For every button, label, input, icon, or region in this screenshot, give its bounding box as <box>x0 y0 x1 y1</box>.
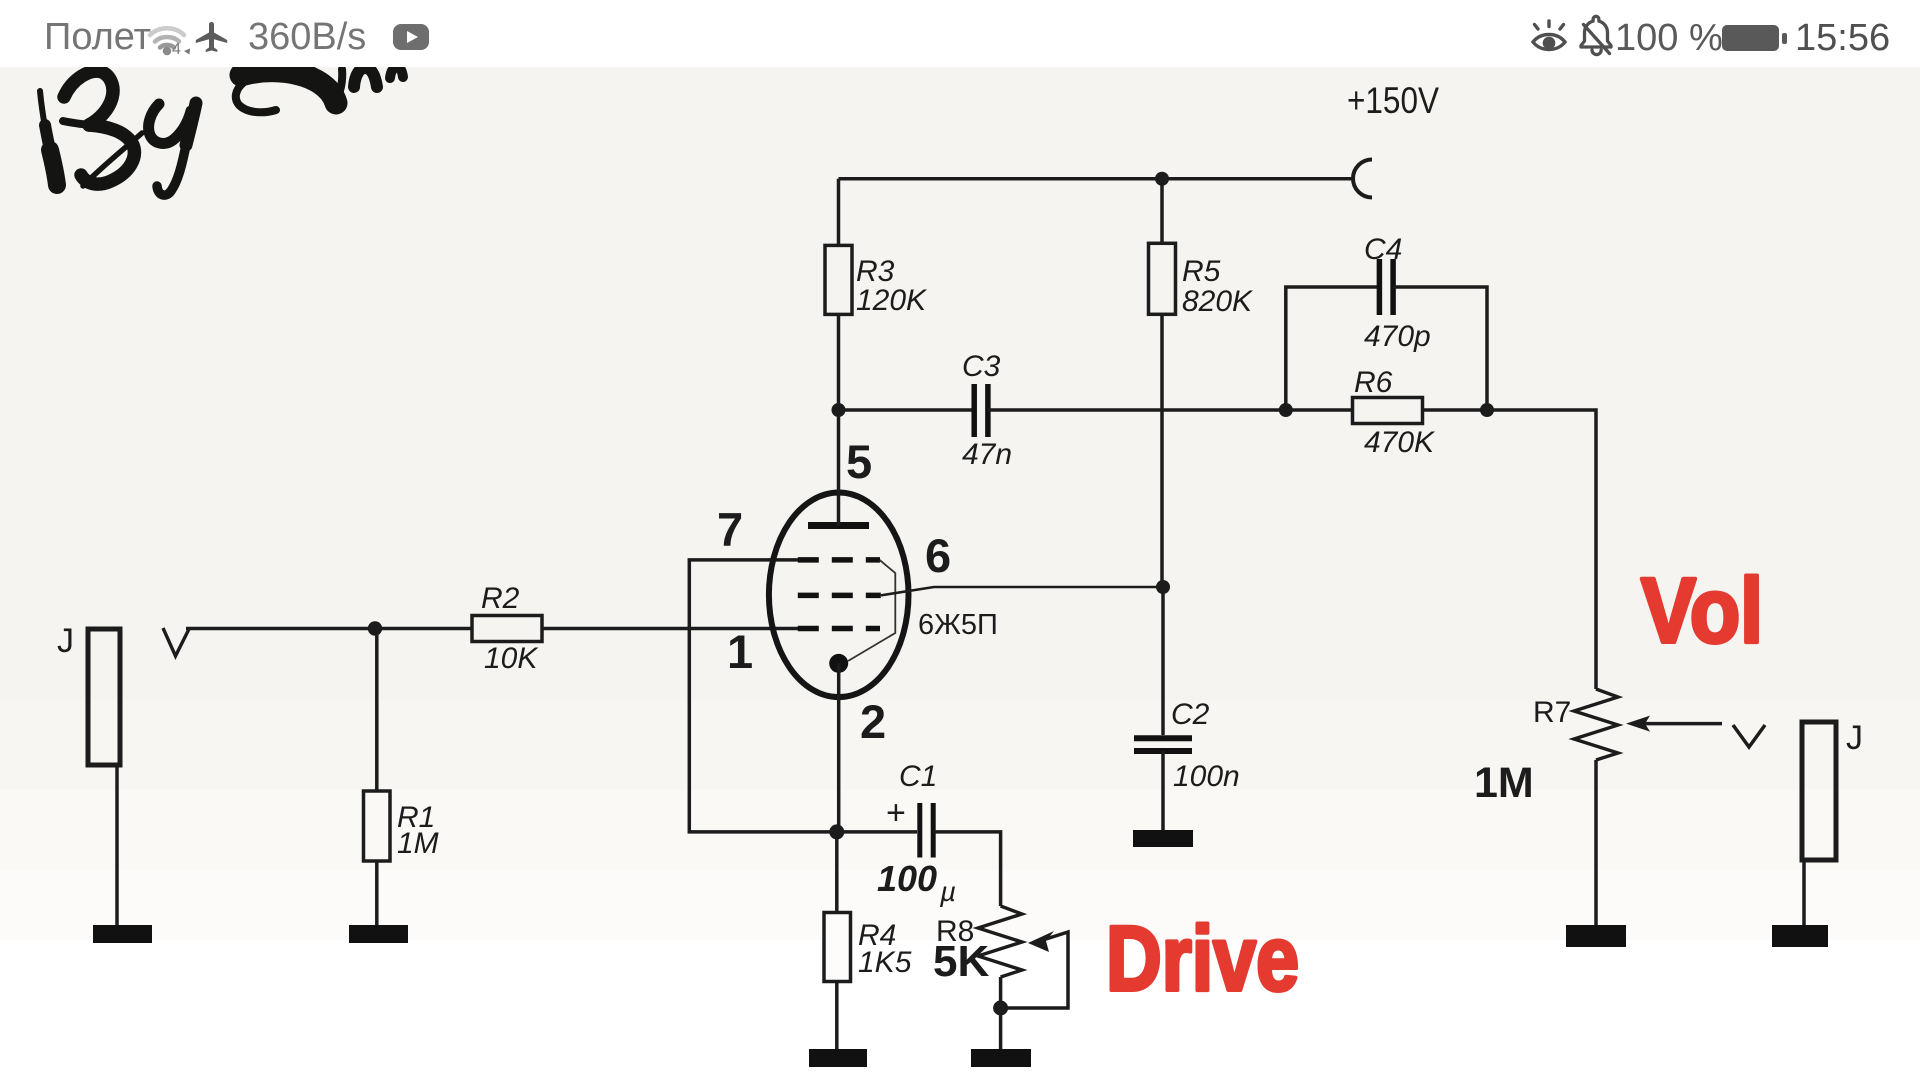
wire left node to R6 <box>1286 408 1353 412</box>
input jack J <box>88 629 120 765</box>
wire top supply rail <box>839 177 1355 181</box>
R8 wiper arrow <box>1028 931 1054 952</box>
wire rail down to R3 <box>837 179 841 246</box>
svg-text:100n: 100n <box>1173 760 1240 793</box>
wire plate node to C3 <box>839 408 972 412</box>
youtube icon <box>393 24 429 50</box>
wire pin7 external: left then down to cathode node <box>689 560 837 832</box>
wire R6 to right node <box>1423 408 1488 412</box>
svg-text:C2: C2 <box>1171 698 1210 731</box>
wire right node to R7 column <box>1487 410 1596 689</box>
ground (R1) <box>349 925 408 943</box>
svg-text:C1: C1 <box>899 760 937 793</box>
svg-text:Drive: Drive <box>1106 908 1299 1010</box>
ground (input jack) <box>93 925 152 943</box>
ground (R4) <box>809 1049 867 1067</box>
tube cathode dot (pin 2) <box>829 654 848 673</box>
wire C1 to R8 column <box>933 832 1001 906</box>
node plate/C3 junction <box>832 403 846 417</box>
svg-text:R7: R7 <box>1533 696 1571 729</box>
wire C2 to ground <box>1161 751 1165 835</box>
swoosh right curl up <box>335 69 342 102</box>
svg-text:1K5: 1K5 <box>858 946 912 979</box>
wire R3 down to plate node <box>837 314 841 410</box>
capacitor C1 electrolytic plates <box>917 803 922 858</box>
tube grid g1 dashed row (pin 1) <box>798 626 880 632</box>
+150V connector arc <box>1353 160 1372 198</box>
potentiometer R7 zigzag <box>1574 689 1618 760</box>
svg-text:R6: R6 <box>1354 366 1393 399</box>
svg-text:7: 7 <box>717 503 743 556</box>
node rail/R5 junction <box>1155 172 1169 186</box>
wire junction down to R1 <box>375 629 379 792</box>
svg-text:820K: 820K <box>1182 285 1254 318</box>
svg-text:470p: 470p <box>1364 320 1431 353</box>
tube internal g3-cathode thin link <box>848 560 895 661</box>
svg-text:6Ж5П: 6Ж5П <box>918 609 998 641</box>
wire input to R2 <box>186 627 474 631</box>
svg-text:C4: C4 <box>1364 233 1402 266</box>
svg-text:47n: 47n <box>962 438 1012 471</box>
svg-text:R5: R5 <box>1182 255 1221 288</box>
wire C4 branch right leg <box>1393 287 1487 410</box>
wire R8 bottom to ground <box>999 977 1003 1054</box>
svg-text:5K: 5K <box>933 937 989 986</box>
letter B exit upstroke crossing <box>83 133 142 186</box>
wire R4 to ground <box>835 982 839 1055</box>
svg-text:5: 5 <box>846 435 872 488</box>
R7 wiper arrow <box>1626 716 1650 732</box>
letter B lobes <box>64 71 113 125</box>
wire R1 to ground <box>375 861 379 930</box>
tube grid g2 dashed row (pin 6) <box>798 593 881 599</box>
resistor R6 <box>1353 398 1423 424</box>
resistor R1 <box>364 791 391 861</box>
node R8 bottom/wiper <box>993 1001 1008 1016</box>
input V symbol <box>163 628 189 656</box>
wifi icon <box>150 28 184 47</box>
node C4/R6 right <box>1480 403 1494 417</box>
svg-text:J: J <box>1846 719 1863 757</box>
STATUSBAR <box>0 0 1920 67</box>
signature second word main swoosh <box>241 71 336 103</box>
node cathode junction <box>829 824 844 839</box>
resistor R4 <box>824 913 851 982</box>
resistor R3 <box>825 245 852 314</box>
ground (output jack) <box>1772 925 1828 947</box>
svg-text:Полет: Полет <box>44 16 151 58</box>
svg-text:2: 2 <box>860 695 886 748</box>
wire cathode node down to R4 <box>835 832 839 913</box>
capacitor C4 plates <box>1377 259 1383 315</box>
tube anode plate bar (pin 5) <box>808 522 869 529</box>
swoosh left under-hook <box>236 83 276 112</box>
capacitor C2 plates <box>1134 735 1192 741</box>
signature word "By" - letter B stem with tapered bottom <box>40 91 58 189</box>
svg-text:+150V: +150V <box>1347 80 1439 121</box>
SIGNATURE <box>40 66 403 195</box>
svg-text:+: + <box>886 794 906 832</box>
wire R7 bottom to ground <box>1594 760 1598 930</box>
svg-text:100: 100 <box>877 858 937 899</box>
partial m hump 1 <box>354 68 377 87</box>
svg-text:C3: C3 <box>962 350 1001 383</box>
node screen junction <box>1156 580 1170 594</box>
svg-text:Vol: Vol <box>1641 560 1763 662</box>
svg-text:470K: 470K <box>1364 426 1436 459</box>
airplane icon <box>196 22 227 52</box>
svg-text:µ: µ <box>939 876 956 907</box>
wire plate up to node <box>837 410 841 526</box>
notifications off bell icon <box>1581 16 1611 54</box>
wire cathode node to C1 <box>837 830 917 834</box>
wire rail down to R5 <box>1160 179 1164 244</box>
wire cathode down to node <box>837 663 841 832</box>
letter y descender tail <box>157 145 186 195</box>
battery icon <box>1722 25 1779 51</box>
ground (R8) <box>971 1049 1031 1067</box>
tube V1 6Ж5П envelope <box>769 493 909 698</box>
letter y stem <box>186 103 196 145</box>
node input/R1 junction <box>368 621 382 635</box>
wire jack to ground <box>115 765 119 930</box>
eye comfort icon <box>1533 21 1565 50</box>
svg-text:4: 4 <box>172 41 181 58</box>
svg-text:1M: 1M <box>397 827 439 860</box>
potentiometer R8 zigzag <box>978 906 1022 977</box>
svg-text:1M: 1M <box>1474 759 1534 807</box>
wire screen node down to C2 <box>1161 587 1165 735</box>
signature word "By" - letter y bowl <box>149 104 191 143</box>
svg-text:10K: 10K <box>484 642 539 675</box>
wire R5 down through crossing to screen node <box>1160 314 1164 587</box>
svg-text:1: 1 <box>727 625 753 678</box>
svg-text:15:56: 15:56 <box>1795 17 1890 59</box>
partial m hump 2 <box>390 67 403 78</box>
schematic paper background <box>0 0 1920 700</box>
capacitor C3 plates <box>971 384 977 437</box>
output jack J <box>1802 722 1836 860</box>
svg-text:R2: R2 <box>481 582 520 615</box>
resistor R5 <box>1149 243 1176 314</box>
svg-text:6: 6 <box>925 529 951 582</box>
svg-text:J: J <box>57 622 74 660</box>
wire C3 to C4/R6 left node <box>988 408 1286 412</box>
letter B cusp connector <box>63 121 89 125</box>
wire R2 to tube grid pin 1 <box>542 627 798 631</box>
node C4/R6 left <box>1279 403 1293 417</box>
svg-text:120K: 120K <box>856 284 928 317</box>
output V symbol <box>1733 725 1765 747</box>
ground (C2) <box>1133 830 1193 847</box>
resistor R2 <box>472 616 542 642</box>
ground (R7) <box>1566 925 1626 947</box>
svg-text:360B/s: 360B/s <box>248 16 366 58</box>
wire output jack to ground <box>1802 860 1806 930</box>
tube grid g3 dashed row (pin 7) <box>798 557 880 563</box>
svg-text:100 %: 100 % <box>1615 17 1723 59</box>
wire screen grid to node on R5 line <box>881 587 1164 595</box>
wire C4 branch left leg <box>1286 287 1380 410</box>
